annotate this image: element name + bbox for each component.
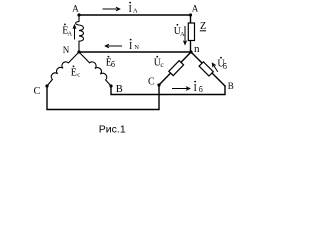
svg-text:E: E [71, 67, 77, 78]
svg-text:C: C [148, 76, 155, 87]
svg-text:I: I [129, 4, 132, 15]
svg-text:B: B [228, 81, 234, 91]
svg-text:C: C [34, 86, 41, 97]
svg-text:N: N [63, 45, 70, 55]
svg-text:б: б [199, 85, 203, 94]
svg-text:I: I [194, 83, 197, 94]
svg-text:N: N [134, 44, 139, 51]
svg-text:I: I [129, 41, 132, 52]
svg-text:B: B [116, 84, 123, 95]
svg-text:A: A [192, 3, 199, 13]
svg-text:n: n [194, 43, 200, 55]
svg-text:A: A [133, 7, 138, 14]
svg-text:A: A [67, 31, 72, 38]
svg-text:A: A [72, 3, 79, 13]
svg-text:A: A [180, 31, 185, 38]
svg-text:б: б [111, 60, 115, 69]
svg-text:с: с [77, 72, 80, 79]
svg-text:Рис.1: Рис.1 [99, 124, 126, 136]
svg-text:б: б [223, 62, 227, 71]
